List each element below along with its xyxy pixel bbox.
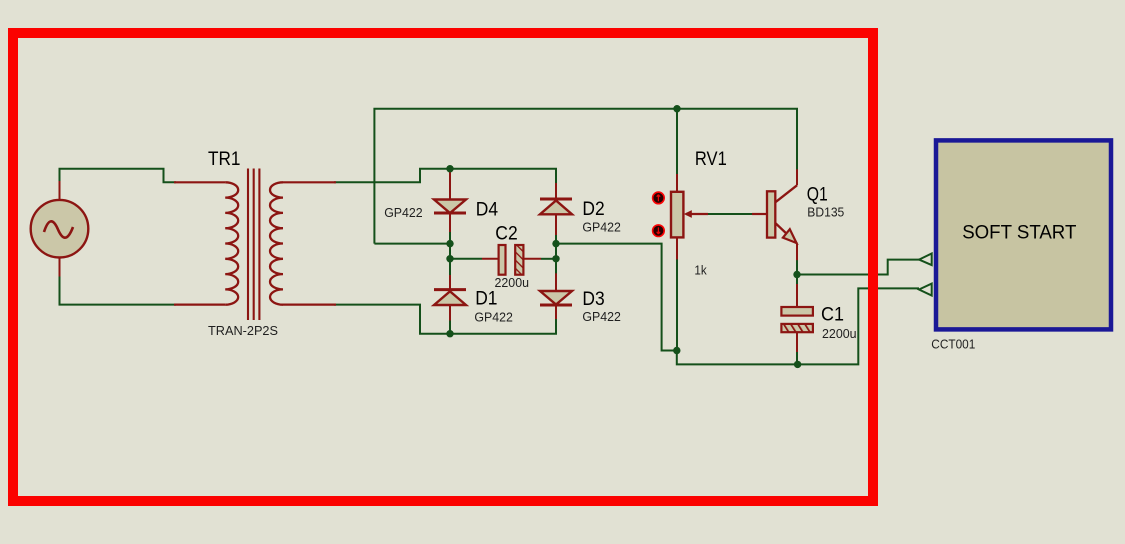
subcircuit pin 1 xyxy=(919,254,932,266)
svg-text:D1: D1 xyxy=(475,288,497,310)
subcircuit SOFT START box xyxy=(936,140,1111,329)
wire C2 right xyxy=(541,258,556,260)
wire D4-D1 vertical node xyxy=(449,230,451,276)
wire AC bottom to transformer primary bottom xyxy=(60,277,177,305)
junction at RV1 bottom xyxy=(673,347,680,354)
AC source V1 xyxy=(31,181,89,277)
primary winding xyxy=(225,182,238,304)
svg-text:CCT001: CCT001 xyxy=(931,338,975,352)
svg-text:GP422: GP422 xyxy=(474,310,513,324)
wire C2 left xyxy=(450,258,482,260)
RV1 terminal marker top xyxy=(653,192,665,204)
transistor Q1 xyxy=(752,169,797,260)
wire left to D4 bottom node xyxy=(374,243,450,245)
svg-text:1k: 1k xyxy=(694,263,707,277)
svg-text:2200u: 2200u xyxy=(495,276,530,290)
svg-text:TR1: TR1 xyxy=(208,148,241,170)
svg-text:C2: C2 xyxy=(495,222,517,244)
wire ground route to subcircuit lower pin xyxy=(556,244,919,365)
secondary winding xyxy=(270,182,283,304)
wire top rail with collector drop xyxy=(374,109,797,244)
wire RV1 top xyxy=(676,109,678,174)
svg-text:GP422: GP422 xyxy=(384,206,423,220)
diode D1 xyxy=(434,275,466,321)
pin secondary bottom xyxy=(283,304,336,306)
pin secondary top xyxy=(283,181,336,183)
junction at Q1 emitter / C1 top xyxy=(793,271,800,278)
wire wiper to base xyxy=(700,213,760,215)
wire C1 bottom xyxy=(796,332,798,364)
capacitor C2 xyxy=(482,245,541,275)
junction at D2 bottom node xyxy=(552,240,559,247)
wire secondary bottom to bridge bottom rail xyxy=(334,305,556,334)
svg-text:Q1: Q1 xyxy=(807,183,828,205)
junction at D1 bottom rail xyxy=(446,330,453,337)
svg-text:SOFT START: SOFT START xyxy=(962,222,1076,244)
transformer TR1 xyxy=(174,169,336,321)
svg-text:RV1: RV1 xyxy=(695,148,727,170)
subcircuit pin 2 xyxy=(919,284,932,296)
junction at C2 right / D3 node xyxy=(552,255,559,262)
wire RV1 bottom xyxy=(676,237,678,350)
diode D3 xyxy=(540,273,572,319)
wire C1 top xyxy=(796,275,798,301)
junction at top rail / RV1 xyxy=(673,105,680,112)
svg-text:GP422: GP422 xyxy=(582,221,621,235)
junction at C1 bottom rail xyxy=(794,361,801,368)
wire AC top to transformer primary xyxy=(60,169,177,183)
wire D2-D3 vertical node xyxy=(555,235,557,274)
wire secondary top to bridge top xyxy=(334,169,556,185)
svg-text:D4: D4 xyxy=(476,198,498,220)
pin primary bottom xyxy=(174,304,225,306)
pin primary top xyxy=(174,181,225,183)
junction at D4 cathode node xyxy=(446,240,453,247)
svg-text:C1: C1 xyxy=(821,304,844,326)
svg-text:2200u: 2200u xyxy=(822,327,857,341)
capacitor C1 xyxy=(781,284,813,352)
svg-text:BD135: BD135 xyxy=(807,205,844,219)
potentiometer RV1 xyxy=(671,174,708,259)
junction at D4 anode / AC top node xyxy=(446,165,453,172)
wire emitter node to subcircuit upper pin xyxy=(797,244,919,275)
junction at C2 left / D1 node xyxy=(446,255,453,262)
svg-text:D2: D2 xyxy=(582,198,604,220)
diode D2 xyxy=(540,183,572,235)
svg-text:D3: D3 xyxy=(582,288,604,310)
RV1 terminal marker bottom xyxy=(653,225,665,237)
svg-text:GP422: GP422 xyxy=(582,310,621,324)
wire D1 bottom xyxy=(449,318,451,334)
diode D4 xyxy=(434,170,466,232)
core xyxy=(248,169,259,321)
svg-text:TRAN-2P2S: TRAN-2P2S xyxy=(208,324,278,338)
